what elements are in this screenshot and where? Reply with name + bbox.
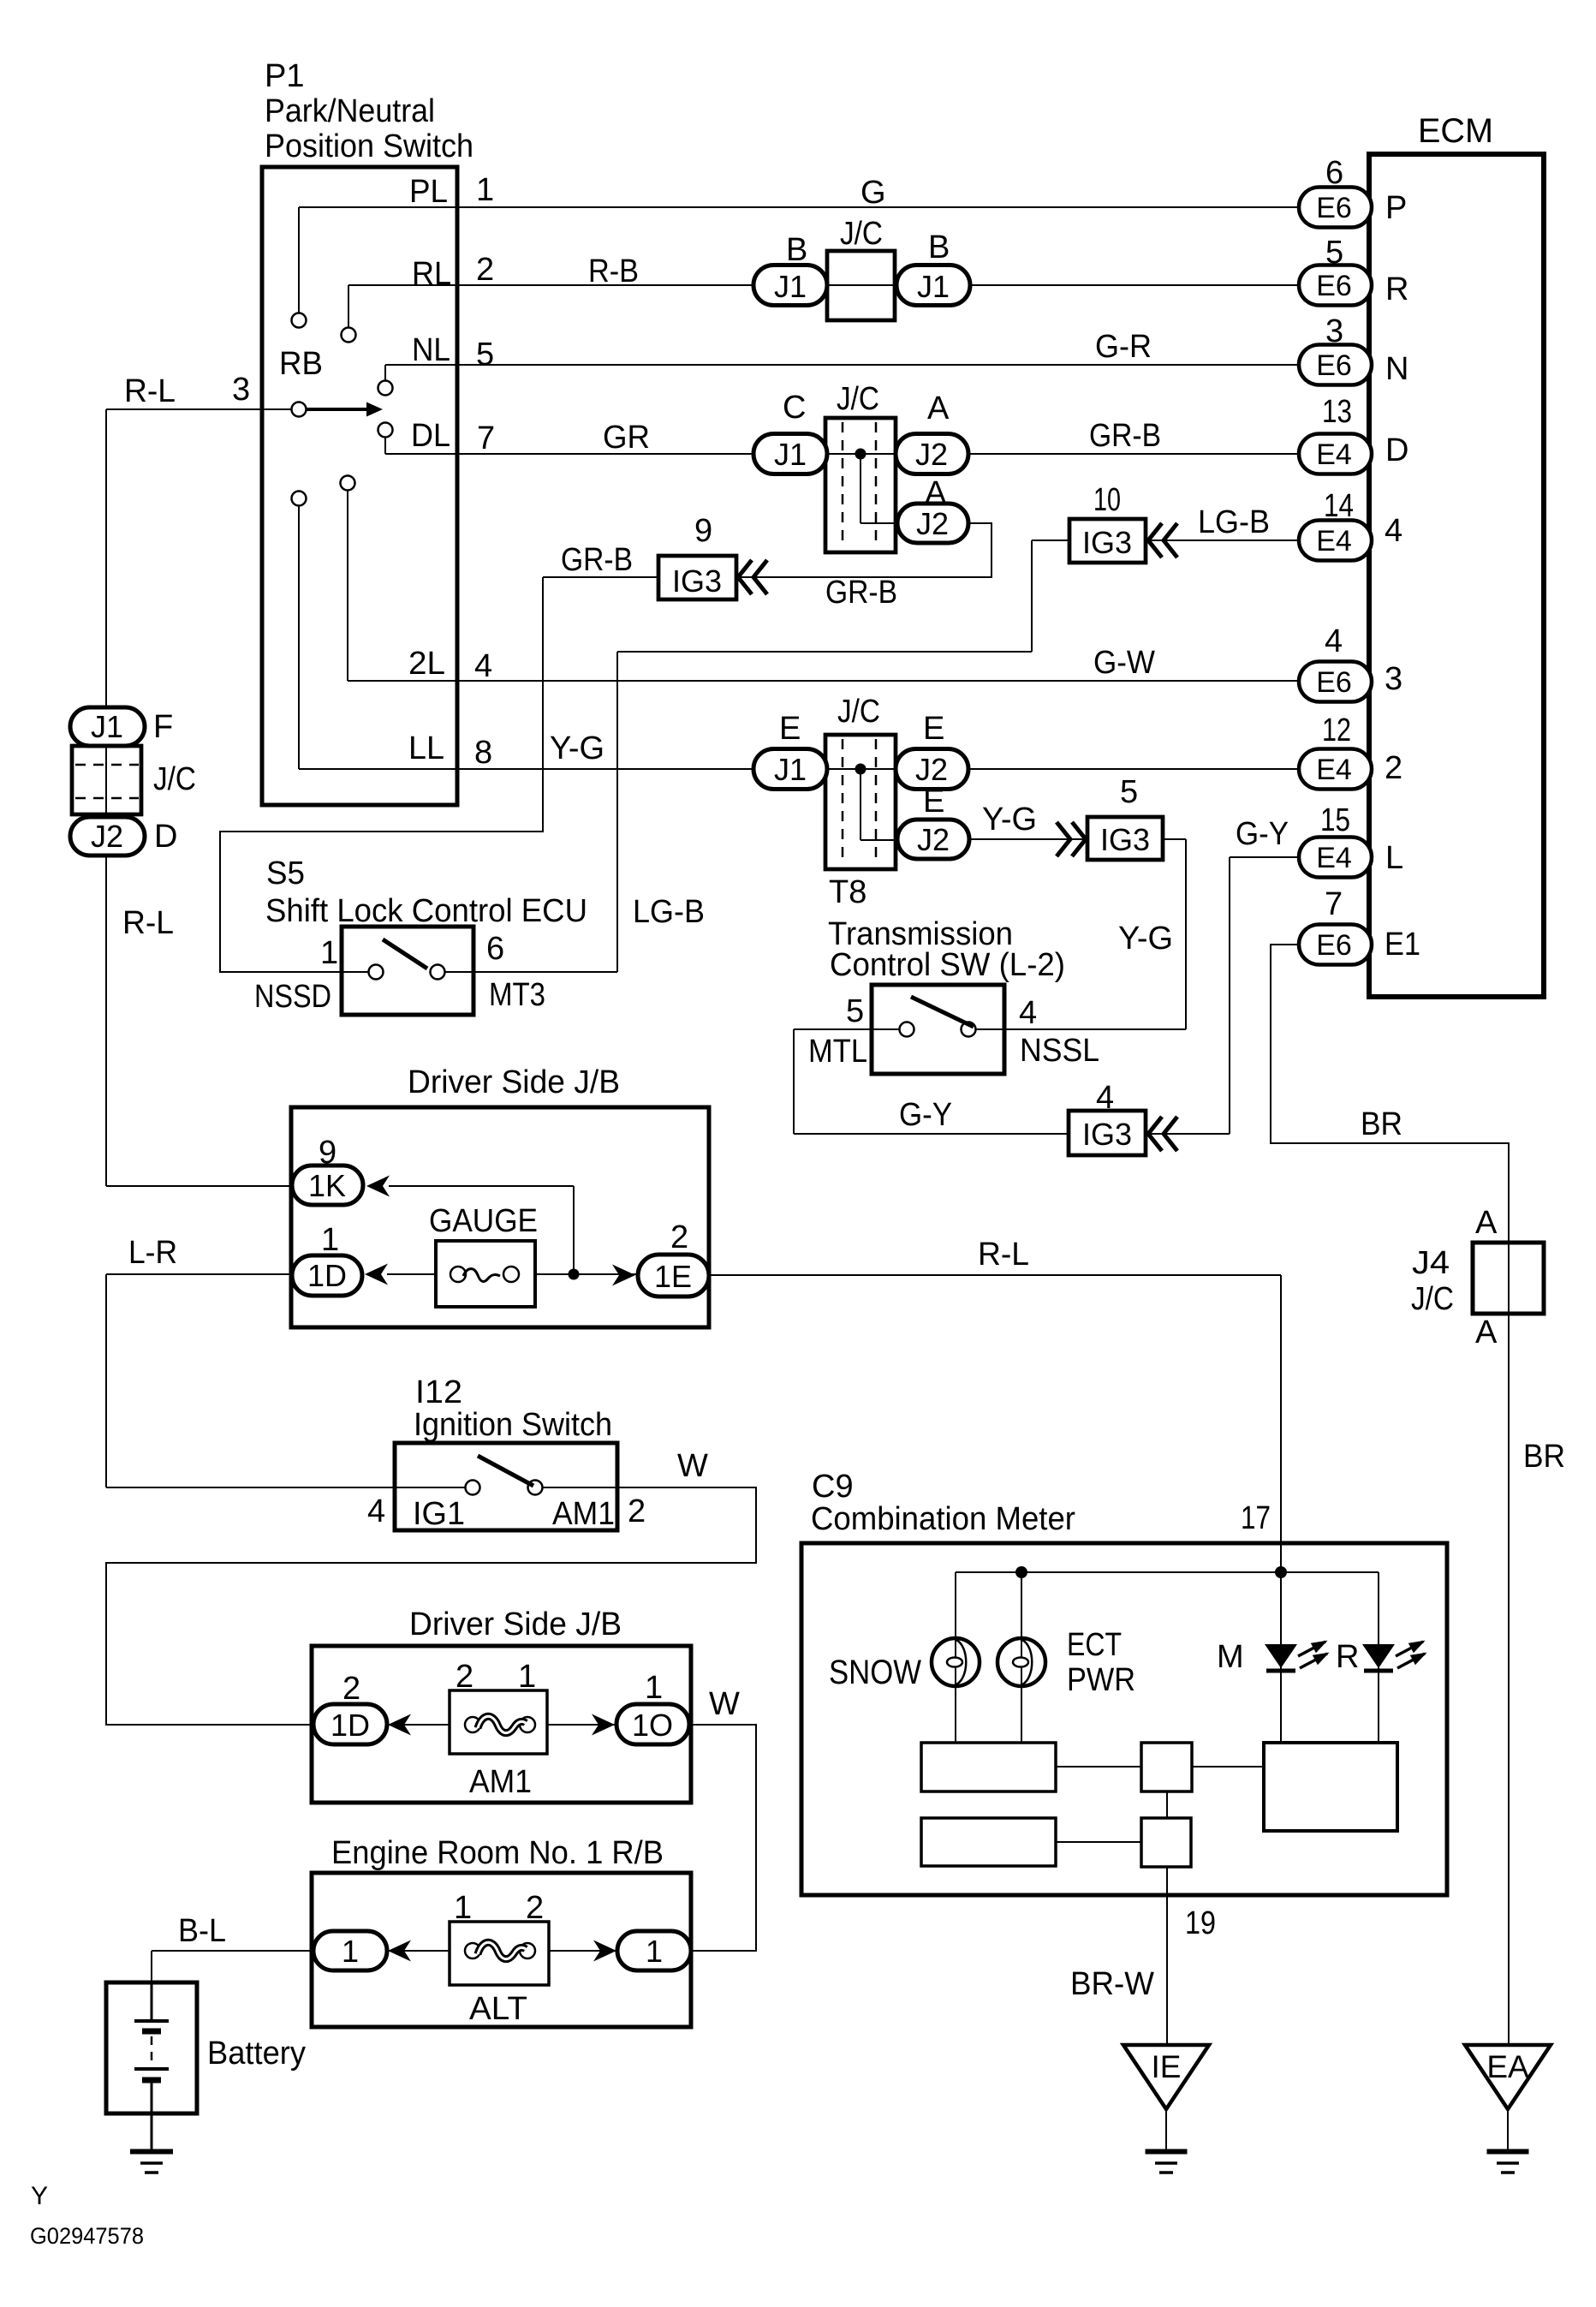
- svg-text:P: P: [1385, 190, 1407, 226]
- svg-text:2: 2: [342, 1671, 360, 1707]
- svg-text:G-Y: G-Y: [1236, 816, 1289, 852]
- svg-text:LG-B: LG-B: [1198, 504, 1270, 540]
- svg-text:12: 12: [1322, 712, 1351, 748]
- svg-text:1: 1: [645, 1670, 663, 1706]
- svg-text:I12: I12: [415, 1374, 462, 1410]
- svg-text:J/C: J/C: [837, 694, 880, 730]
- svg-text:EA: EA: [1486, 2049, 1529, 2084]
- svg-text:J2: J2: [915, 752, 948, 787]
- svg-text:C: C: [783, 390, 806, 426]
- svg-text:Driver Side J/B: Driver Side J/B: [408, 1064, 620, 1100]
- svg-text:GR-B: GR-B: [561, 542, 633, 578]
- svg-text:2: 2: [1385, 750, 1402, 786]
- svg-text:J1: J1: [917, 269, 950, 304]
- svg-text:LG-B: LG-B: [633, 894, 705, 930]
- svg-text:4: 4: [367, 1493, 385, 1529]
- svg-text:3: 3: [1325, 313, 1343, 349]
- svg-text:T8: T8: [829, 874, 866, 910]
- svg-text:L-R: L-R: [128, 1235, 177, 1271]
- svg-text:R: R: [1385, 271, 1408, 307]
- svg-text:Driver Side J/B: Driver Side J/B: [409, 1607, 622, 1642]
- svg-text:E6: E6: [1316, 192, 1352, 224]
- svg-text:Combination Meter: Combination Meter: [811, 1501, 1075, 1537]
- svg-text:J/C: J/C: [1411, 1281, 1454, 1317]
- svg-text:5: 5: [846, 993, 864, 1029]
- svg-text:B: B: [928, 230, 950, 265]
- svg-text:Shift Lock Control ECU: Shift Lock Control ECU: [265, 893, 587, 929]
- svg-text:3: 3: [1385, 661, 1402, 697]
- svg-text:R-L: R-L: [978, 1237, 1029, 1273]
- svg-text:3: 3: [232, 372, 250, 408]
- svg-text:1: 1: [321, 1222, 339, 1258]
- svg-text:M: M: [1217, 1639, 1244, 1675]
- svg-text:17: 17: [1241, 1500, 1271, 1536]
- svg-text:RB: RB: [279, 346, 323, 382]
- svg-text:A: A: [927, 390, 950, 426]
- svg-text:C9: C9: [812, 1469, 854, 1505]
- svg-text:6: 6: [486, 931, 504, 967]
- svg-text:4: 4: [1385, 513, 1402, 549]
- svg-text:GR: GR: [603, 420, 650, 456]
- svg-text:B-L: B-L: [178, 1913, 226, 1949]
- svg-text:J1: J1: [774, 269, 807, 304]
- svg-text:2: 2: [670, 1219, 688, 1255]
- svg-text:R-L: R-L: [124, 373, 176, 409]
- svg-text:ECT: ECT: [1067, 1627, 1122, 1663]
- svg-text:J/C: J/C: [837, 381, 879, 417]
- svg-text:J/C: J/C: [840, 216, 883, 252]
- svg-text:1D: 1D: [307, 1258, 347, 1293]
- svg-text:2: 2: [456, 1659, 473, 1695]
- svg-text:2L: 2L: [408, 646, 445, 682]
- svg-text:E4: E4: [1316, 842, 1352, 874]
- svg-text:R-B: R-B: [588, 253, 639, 289]
- svg-text:J2: J2: [91, 819, 123, 854]
- svg-text:GAUGE: GAUGE: [429, 1203, 538, 1239]
- svg-text:1: 1: [646, 1934, 663, 1969]
- svg-text:G-Y: G-Y: [899, 1097, 952, 1133]
- svg-text:ECM: ECM: [1418, 112, 1493, 150]
- svg-text:7: 7: [477, 420, 495, 456]
- svg-text:PWR: PWR: [1067, 1662, 1135, 1698]
- svg-text:6: 6: [1325, 155, 1343, 191]
- svg-text:L: L: [1385, 840, 1403, 876]
- svg-text:9: 9: [694, 513, 712, 549]
- svg-text:1: 1: [518, 1659, 536, 1695]
- svg-text:4: 4: [1325, 623, 1343, 659]
- svg-text:N: N: [1385, 351, 1408, 387]
- svg-text:P1: P1: [265, 58, 304, 94]
- svg-text:1D: 1D: [331, 1708, 370, 1743]
- svg-text:J4: J4: [1412, 1245, 1450, 1281]
- svg-text:14: 14: [1324, 488, 1354, 524]
- svg-text:R-L: R-L: [122, 905, 174, 941]
- svg-text:4: 4: [474, 648, 492, 684]
- svg-text:E4: E4: [1316, 754, 1352, 786]
- svg-text:S5: S5: [266, 855, 305, 891]
- svg-text:1: 1: [320, 935, 338, 971]
- svg-text:2: 2: [628, 1493, 646, 1529]
- svg-text:SNOW: SNOW: [829, 1654, 921, 1691]
- svg-text:NSSD: NSSD: [254, 979, 331, 1015]
- svg-text:Control SW (L-2): Control SW (L-2): [830, 947, 1065, 983]
- svg-text:1O: 1O: [632, 1708, 673, 1743]
- svg-text:4: 4: [1096, 1080, 1114, 1116]
- svg-text:Engine Room No. 1 R/B: Engine Room No. 1 R/B: [331, 1835, 664, 1871]
- svg-text:G: G: [861, 175, 886, 211]
- svg-text:E6: E6: [1316, 929, 1352, 962]
- svg-text:D: D: [154, 819, 177, 855]
- svg-text:W: W: [677, 1448, 708, 1484]
- svg-text:1K: 1K: [308, 1168, 346, 1203]
- svg-text:BR: BR: [1523, 1439, 1565, 1475]
- svg-text:Y-G: Y-G: [1118, 921, 1173, 957]
- svg-text:IG3: IG3: [1100, 822, 1150, 857]
- svg-text:G02947578: G02947578: [30, 2223, 144, 2249]
- svg-text:LL: LL: [408, 730, 444, 766]
- svg-text:E4: E4: [1316, 525, 1352, 557]
- svg-text:10: 10: [1093, 482, 1121, 518]
- svg-text:1: 1: [454, 1890, 472, 1926]
- svg-text:G-W: G-W: [1093, 645, 1155, 681]
- svg-text:IG3: IG3: [1082, 525, 1132, 560]
- svg-text:E: E: [923, 711, 944, 747]
- svg-text:J/C: J/C: [153, 761, 196, 797]
- svg-text:J1: J1: [774, 437, 807, 472]
- svg-text:7: 7: [1325, 886, 1343, 922]
- svg-text:BR-W: BR-W: [1070, 1966, 1154, 2002]
- svg-text:9: 9: [319, 1135, 336, 1171]
- svg-text:J2: J2: [917, 822, 950, 857]
- svg-text:DL: DL: [411, 418, 450, 454]
- svg-text:J1: J1: [91, 709, 123, 744]
- svg-text:8: 8: [474, 735, 492, 771]
- svg-text:MT3: MT3: [489, 977, 545, 1013]
- svg-text:Position Switch: Position Switch: [265, 128, 473, 164]
- svg-text:AM1: AM1: [469, 1764, 532, 1800]
- svg-text:BR: BR: [1361, 1106, 1402, 1142]
- svg-text:IG1: IG1: [413, 1496, 465, 1532]
- svg-text:E6: E6: [1316, 349, 1352, 382]
- svg-text:NL: NL: [412, 332, 450, 368]
- svg-text:Y-G: Y-G: [550, 730, 604, 766]
- svg-text:E: E: [923, 784, 944, 820]
- svg-text:J2: J2: [915, 437, 948, 472]
- svg-text:13: 13: [1322, 394, 1352, 430]
- svg-text:MTL: MTL: [808, 1034, 867, 1070]
- svg-text:R: R: [1336, 1639, 1359, 1675]
- svg-text:Battery: Battery: [207, 2036, 306, 2072]
- svg-text:G-R: G-R: [1095, 329, 1152, 365]
- svg-text:F: F: [153, 709, 173, 745]
- svg-text:Park/Neutral: Park/Neutral: [265, 93, 435, 129]
- svg-text:ALT: ALT: [469, 1991, 527, 2027]
- svg-text:J2: J2: [916, 506, 949, 541]
- svg-text:5: 5: [1120, 774, 1138, 810]
- svg-text:1: 1: [476, 172, 494, 208]
- svg-text:4: 4: [1019, 995, 1037, 1031]
- svg-text:19: 19: [1185, 1905, 1216, 1941]
- svg-text:IG3: IG3: [1082, 1117, 1132, 1152]
- svg-text:NSSL: NSSL: [1020, 1033, 1099, 1069]
- svg-text:5: 5: [476, 337, 494, 373]
- svg-text:GR-B: GR-B: [825, 575, 897, 611]
- svg-text:E6: E6: [1316, 666, 1352, 699]
- svg-text:E: E: [779, 711, 801, 747]
- svg-text:RL: RL: [412, 256, 451, 292]
- svg-text:1E: 1E: [654, 1259, 692, 1294]
- svg-text:5: 5: [1325, 235, 1343, 271]
- svg-text:A: A: [1475, 1205, 1498, 1241]
- svg-text:J1: J1: [774, 752, 807, 787]
- svg-text:2: 2: [476, 252, 494, 288]
- svg-text:Y: Y: [31, 2182, 48, 2210]
- svg-text:E6: E6: [1316, 270, 1352, 302]
- svg-text:W: W: [709, 1686, 740, 1722]
- svg-text:E1: E1: [1385, 927, 1420, 963]
- svg-text:E4: E4: [1316, 438, 1352, 471]
- svg-text:1: 1: [342, 1934, 359, 1969]
- svg-text:2: 2: [526, 1890, 544, 1926]
- svg-text:A: A: [1475, 1314, 1498, 1350]
- svg-text:IG3: IG3: [672, 563, 722, 599]
- svg-text:D: D: [1385, 432, 1408, 468]
- svg-text:GR-B: GR-B: [1089, 418, 1161, 454]
- svg-text:AM1: AM1: [552, 1496, 615, 1532]
- svg-text:Ignition Switch: Ignition Switch: [414, 1407, 612, 1443]
- svg-text:Y-G: Y-G: [982, 802, 1037, 838]
- svg-text:PL: PL: [409, 174, 448, 210]
- svg-text:IE: IE: [1152, 2049, 1182, 2084]
- svg-text:15: 15: [1320, 802, 1350, 838]
- svg-text:B: B: [786, 232, 807, 268]
